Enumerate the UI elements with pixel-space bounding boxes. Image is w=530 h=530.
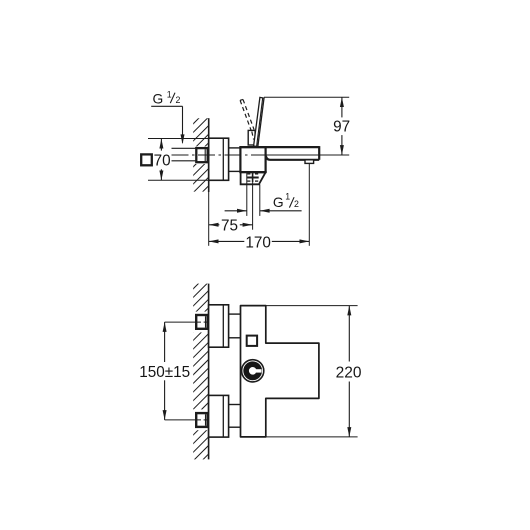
- svg-text:170: 170: [245, 235, 271, 252]
- top escutcheon (front): [209, 305, 229, 347]
- mixer body (top view): [240, 147, 265, 172]
- top union nut: [196, 315, 207, 329]
- svg-text:75: 75: [221, 217, 238, 234]
- top neck: [229, 313, 241, 315]
- dimension 170: [209, 235, 310, 252]
- mixer body (front view, T-shape): [241, 306, 319, 437]
- dimension G1/2 top-left label: [151, 89, 184, 144]
- svg-text:1: 1: [285, 191, 290, 201]
- svg-text:2: 2: [176, 95, 181, 105]
- outlet cross / union symbol: [247, 173, 259, 183]
- svg-text:97: 97: [333, 119, 350, 136]
- svg-text:2: 2: [294, 199, 299, 209]
- svg-text:220: 220: [336, 364, 362, 381]
- spout: [240, 146, 319, 148]
- wall line (bottom view): [208, 284, 210, 460]
- lever handle (solid position): [254, 97, 264, 146]
- dimension 97 (height): [264, 97, 350, 155]
- white clearance around inlet fitting: [193, 146, 210, 164]
- svg-text:150±15: 150±15: [139, 364, 190, 381]
- lever handle open position (dashed): [240, 99, 254, 139]
- neck between escutcheon and body: [229, 147, 241, 149]
- bottom neck: [229, 404, 241, 406]
- bottom union nut: [196, 413, 207, 427]
- wall line (top view): [208, 118, 210, 192]
- svg-text:70: 70: [154, 153, 171, 170]
- extension line from spout stub: [308, 163, 310, 245]
- supply pipe lines: [172, 147, 197, 149]
- svg-text:G: G: [273, 195, 284, 210]
- bottom escutcheon (front): [209, 395, 229, 437]
- top pipe centreline: [165, 321, 201, 323]
- dimension G1/2 middle label: [225, 191, 302, 212]
- extension line outlet centre: [252, 182, 254, 230]
- small square detail (diverter): [247, 336, 257, 346]
- svg-text:G: G: [153, 91, 164, 106]
- wall hatching (top view): [190, 102, 215, 213]
- centreline through valve and spout: [172, 154, 267, 156]
- emblem circle with bar: [242, 360, 264, 382]
- extension line from outlet left: [246, 173, 248, 216]
- lower outlet housing (trapezoid): [241, 172, 266, 184]
- lever collar: [248, 130, 255, 145]
- dimension 220: [266, 306, 362, 437]
- dimension 150±15: [139, 322, 190, 420]
- bottom pipe centreline: [165, 419, 201, 421]
- extension line from outlet right: [259, 184, 261, 216]
- spout outlet stub: [305, 160, 314, 164]
- square inlet union fitting: [196, 148, 207, 162]
- white clearance around nuts: [192, 312, 210, 333]
- dimension 75: [209, 217, 253, 234]
- escutcheon (top view): [209, 138, 229, 180]
- svg-text:1: 1: [167, 89, 172, 99]
- wall hatching (bottom view): [190, 267, 215, 473]
- dimension 70 (escutcheon size): [141, 139, 209, 181]
- wall extension line down to 170 dimension: [208, 192, 210, 246]
